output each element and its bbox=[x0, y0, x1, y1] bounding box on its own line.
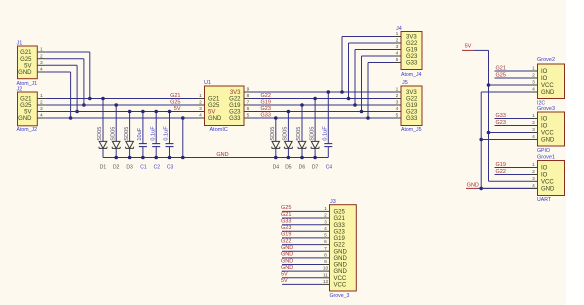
svg-text:C2: C2 bbox=[154, 165, 161, 171]
svg-text:G33: G33 bbox=[281, 219, 291, 225]
svg-text:J1: J1 bbox=[17, 40, 23, 46]
svg-text:G33: G33 bbox=[406, 116, 418, 122]
svg-text:G22: G22 bbox=[334, 243, 346, 249]
junction bbox=[181, 156, 185, 160]
junction bbox=[479, 187, 483, 191]
svg-text:2: 2 bbox=[40, 53, 43, 59]
connector Grove1 (UART) bbox=[530, 154, 565, 203]
svg-text:GPIO: GPIO bbox=[537, 148, 550, 154]
svg-text:G33: G33 bbox=[229, 116, 241, 122]
wire net G22 bus right bbox=[252, 98, 393, 100]
diode D1 (SD05) bbox=[97, 99, 107, 158]
junction bbox=[101, 97, 105, 101]
wire J3 pin 7 net GND bbox=[282, 250, 322, 252]
svg-text:G19: G19 bbox=[334, 236, 346, 242]
svg-text:G25: G25 bbox=[281, 205, 291, 211]
svg-text:D7: D7 bbox=[312, 165, 319, 171]
svg-text:1: 1 bbox=[396, 31, 399, 37]
svg-text:G19: G19 bbox=[406, 103, 418, 109]
svg-text:Atom_J5: Atom_J5 bbox=[401, 127, 422, 133]
wire 5V rail bbox=[474, 50, 489, 181]
junction bbox=[69, 116, 73, 120]
wire J3 pin 11 net 5V bbox=[282, 277, 322, 279]
svg-text:SD05: SD05 bbox=[124, 127, 130, 141]
wire J3 pin 1 net G25 bbox=[282, 210, 322, 212]
svg-text:4: 4 bbox=[532, 134, 535, 140]
junction bbox=[114, 103, 118, 107]
svg-text:1: 1 bbox=[324, 206, 327, 212]
svg-text:3: 3 bbox=[199, 106, 202, 112]
connector J4 (Atom_J4) bbox=[393, 26, 422, 78]
svg-text:SD05: SD05 bbox=[110, 127, 116, 141]
wire J1 G25 bbox=[45, 59, 84, 105]
svg-text:GND: GND bbox=[18, 116, 32, 122]
svg-text:U1: U1 bbox=[204, 80, 211, 86]
connector Grove2 (I2C) bbox=[530, 57, 565, 106]
svg-text:J4: J4 bbox=[396, 26, 402, 32]
junction bbox=[128, 156, 132, 160]
junction bbox=[287, 156, 291, 160]
wire G22 to J4 bbox=[349, 43, 394, 99]
svg-text:D2: D2 bbox=[113, 165, 120, 171]
svg-text:2: 2 bbox=[396, 38, 399, 44]
svg-text:G25: G25 bbox=[170, 100, 180, 106]
svg-text:G25: G25 bbox=[20, 57, 32, 63]
svg-text:10uF: 10uF bbox=[137, 127, 143, 140]
svg-text:GND: GND bbox=[281, 265, 293, 271]
svg-text:G21: G21 bbox=[496, 65, 506, 71]
junction bbox=[88, 97, 92, 101]
svg-text:0.1uF: 0.1uF bbox=[323, 126, 329, 141]
svg-text:G23: G23 bbox=[281, 225, 291, 231]
svg-text:4: 4 bbox=[40, 67, 43, 73]
svg-text:Atom_J4: Atom_J4 bbox=[401, 72, 422, 78]
svg-text:G33: G33 bbox=[496, 113, 506, 119]
capacitor C1 (10uF) bbox=[137, 112, 147, 158]
svg-text:5: 5 bbox=[247, 113, 250, 119]
svg-text:IO: IO bbox=[541, 173, 548, 179]
svg-text:SD05: SD05 bbox=[296, 127, 302, 141]
svg-text:3: 3 bbox=[40, 60, 43, 66]
svg-text:J2: J2 bbox=[17, 86, 23, 92]
wire G25 io2 bbox=[495, 77, 530, 79]
svg-text:UART: UART bbox=[537, 197, 552, 203]
wire J3 pin 8 net GND bbox=[282, 257, 322, 259]
svg-text:5V: 5V bbox=[174, 106, 181, 112]
svg-text:1: 1 bbox=[532, 66, 535, 72]
svg-text:G19: G19 bbox=[229, 103, 241, 109]
wire net G25 bus bbox=[45, 104, 196, 106]
svg-text:J5: J5 bbox=[402, 80, 408, 86]
svg-text:3: 3 bbox=[532, 176, 535, 182]
junction bbox=[75, 110, 79, 114]
svg-text:5V: 5V bbox=[281, 272, 288, 278]
wire VCC bbox=[489, 84, 530, 86]
svg-text:GND: GND bbox=[334, 269, 348, 275]
svg-text:Grove_3: Grove_3 bbox=[330, 293, 350, 299]
capacitor C3 (0.1uF) bbox=[164, 112, 174, 158]
svg-text:SD05: SD05 bbox=[283, 127, 289, 141]
svg-text:GND: GND bbox=[281, 252, 293, 258]
svg-text:G21: G21 bbox=[170, 93, 180, 99]
svg-text:4: 4 bbox=[532, 87, 535, 93]
svg-text:1: 1 bbox=[199, 93, 202, 99]
svg-text:4: 4 bbox=[396, 51, 399, 57]
op IC U1 AtomIC bbox=[197, 80, 253, 133]
diode D3 (SD05) bbox=[124, 112, 134, 158]
svg-text:3: 3 bbox=[396, 100, 399, 106]
wire VCC bbox=[489, 180, 530, 182]
junction bbox=[168, 110, 172, 114]
svg-text:4: 4 bbox=[199, 113, 202, 119]
svg-text:G21: G21 bbox=[20, 50, 32, 56]
connector J5 (Atom_J5) bbox=[393, 80, 422, 133]
svg-text:SD05: SD05 bbox=[309, 127, 315, 141]
svg-text:0.1uF: 0.1uF bbox=[150, 126, 156, 141]
svg-text:G23: G23 bbox=[406, 110, 418, 116]
svg-text:5V: 5V bbox=[24, 110, 31, 116]
svg-text:G23: G23 bbox=[496, 120, 506, 126]
svg-text:IO: IO bbox=[541, 69, 548, 75]
svg-text:6: 6 bbox=[247, 106, 250, 112]
diode D6 (SD05) bbox=[296, 105, 306, 158]
svg-text:GND: GND bbox=[281, 258, 293, 264]
sheet margin bbox=[566, 0, 584, 305]
svg-text:2: 2 bbox=[396, 93, 399, 99]
svg-text:G22: G22 bbox=[496, 169, 506, 175]
svg-text:2: 2 bbox=[40, 100, 43, 106]
junction bbox=[181, 116, 185, 120]
svg-text:3V3: 3V3 bbox=[230, 90, 241, 96]
svg-text:4: 4 bbox=[324, 226, 327, 232]
wire GND drop bbox=[182, 118, 184, 158]
connector Grove3 (GPIO) bbox=[530, 106, 565, 154]
svg-text:GND: GND bbox=[281, 245, 293, 251]
svg-text:G21: G21 bbox=[334, 216, 346, 222]
wire GND rail right bbox=[478, 92, 538, 188]
svg-text:GND: GND bbox=[541, 187, 555, 193]
svg-text:IO: IO bbox=[541, 124, 548, 130]
wire GND bbox=[481, 91, 529, 93]
svg-text:G21: G21 bbox=[20, 97, 32, 103]
svg-text:GND: GND bbox=[334, 256, 348, 262]
svg-text:D3: D3 bbox=[126, 165, 133, 171]
svg-text:7: 7 bbox=[247, 100, 250, 106]
svg-text:3V3: 3V3 bbox=[406, 90, 417, 96]
wire J3 pin 3 net G33 bbox=[282, 224, 322, 226]
svg-text:D6: D6 bbox=[299, 165, 306, 171]
svg-text:6: 6 bbox=[324, 239, 327, 245]
wire G33 io1 bbox=[495, 118, 530, 120]
svg-text:5V: 5V bbox=[24, 63, 31, 69]
svg-text:G19: G19 bbox=[281, 232, 291, 238]
junction bbox=[487, 83, 491, 87]
svg-text:AtomIC: AtomIC bbox=[210, 127, 228, 133]
wire net G19 bus right bbox=[252, 104, 393, 106]
wire 3V3 to J4 bbox=[342, 37, 393, 93]
svg-text:5V: 5V bbox=[465, 44, 472, 50]
svg-text:VCC: VCC bbox=[541, 83, 554, 89]
svg-text:3: 3 bbox=[324, 219, 327, 225]
connector J3 (Grove_3) bbox=[322, 199, 357, 299]
wire net 5V bus bbox=[45, 111, 196, 113]
junction bbox=[274, 156, 278, 160]
svg-text:4: 4 bbox=[532, 183, 535, 189]
wire J1 GND bbox=[45, 72, 70, 118]
svg-text:8: 8 bbox=[324, 253, 327, 259]
wire G22 io2 bbox=[495, 174, 530, 176]
svg-text:3: 3 bbox=[532, 127, 535, 133]
junction bbox=[141, 156, 145, 160]
junction bbox=[479, 138, 483, 142]
svg-text:D5: D5 bbox=[285, 165, 292, 171]
svg-text:G23: G23 bbox=[406, 54, 418, 60]
svg-text:G33: G33 bbox=[406, 61, 418, 67]
svg-text:VCC: VCC bbox=[334, 276, 347, 282]
diode D5 (SD05) bbox=[283, 112, 293, 158]
svg-text:GND: GND bbox=[541, 90, 555, 96]
svg-text:9: 9 bbox=[324, 259, 327, 265]
svg-text:5V: 5V bbox=[281, 278, 288, 284]
wire J3 pin 6 net G22 bbox=[282, 244, 322, 246]
svg-text:G22: G22 bbox=[406, 41, 418, 47]
svg-text:G21: G21 bbox=[208, 97, 220, 103]
wire G23 to J4 bbox=[362, 56, 394, 112]
wire J1 G21 bbox=[45, 52, 90, 99]
svg-text:G25: G25 bbox=[20, 103, 32, 109]
svg-text:G22: G22 bbox=[229, 97, 241, 103]
svg-text:G23: G23 bbox=[229, 110, 241, 116]
svg-text:Atom_J2: Atom_J2 bbox=[17, 127, 38, 133]
svg-text:2: 2 bbox=[324, 213, 327, 219]
svg-text:8: 8 bbox=[247, 93, 250, 99]
svg-text:C4: C4 bbox=[326, 165, 333, 171]
wire J3 pin 2 net G21 bbox=[282, 217, 322, 219]
junction bbox=[82, 103, 86, 107]
svg-text:5: 5 bbox=[324, 233, 327, 239]
svg-text:3V3: 3V3 bbox=[406, 35, 417, 41]
wire J3 pin 4 net G23 bbox=[282, 230, 322, 232]
svg-text:GND: GND bbox=[541, 138, 555, 144]
svg-text:G33: G33 bbox=[334, 223, 346, 229]
junction bbox=[141, 110, 145, 114]
svg-text:1: 1 bbox=[532, 113, 535, 119]
wire net GND rail bbox=[103, 157, 328, 159]
wire J3 pin 10 net GND bbox=[282, 270, 322, 272]
svg-text:GND: GND bbox=[216, 152, 228, 158]
svg-text:VCC: VCC bbox=[334, 283, 347, 289]
svg-text:D1: D1 bbox=[100, 165, 107, 171]
wire J3 pin 9 net GND bbox=[282, 264, 322, 266]
svg-text:4: 4 bbox=[40, 113, 43, 119]
junction bbox=[154, 110, 158, 114]
svg-text:G25: G25 bbox=[496, 72, 506, 78]
wire G21 io1 bbox=[495, 70, 530, 72]
capacitor C4 (0.1uF) bbox=[323, 92, 333, 158]
svg-text:Grove1: Grove1 bbox=[537, 154, 555, 160]
svg-text:GND: GND bbox=[208, 116, 222, 122]
svg-text:GND: GND bbox=[467, 183, 479, 189]
junction bbox=[128, 110, 132, 114]
svg-text:G19: G19 bbox=[406, 48, 418, 54]
svg-text:7: 7 bbox=[324, 246, 327, 252]
wire net G21 bus bbox=[45, 98, 196, 100]
wire G23 io2 bbox=[495, 125, 530, 127]
svg-text:C3: C3 bbox=[167, 165, 174, 171]
junction bbox=[487, 131, 491, 135]
wire G33 to J4 bbox=[368, 63, 393, 119]
junction bbox=[300, 156, 304, 160]
svg-text:1: 1 bbox=[40, 93, 43, 99]
svg-text:GND: GND bbox=[334, 249, 348, 255]
svg-text:G22: G22 bbox=[406, 97, 418, 103]
svg-text:2: 2 bbox=[532, 120, 535, 126]
wire G19 io1 bbox=[495, 167, 530, 169]
svg-text:G25: G25 bbox=[334, 210, 346, 216]
svg-text:12: 12 bbox=[323, 279, 329, 285]
svg-text:5: 5 bbox=[396, 57, 399, 63]
svg-text:2: 2 bbox=[199, 100, 202, 106]
junction bbox=[313, 156, 317, 160]
junction bbox=[114, 156, 118, 160]
svg-text:SD05: SD05 bbox=[270, 127, 276, 141]
svg-text:G22: G22 bbox=[261, 93, 271, 99]
junction bbox=[168, 156, 172, 160]
wire net G23 bus right bbox=[252, 111, 393, 113]
connector J1 (Atom_J1) bbox=[17, 40, 46, 87]
svg-text:3: 3 bbox=[396, 44, 399, 50]
junction bbox=[154, 156, 158, 160]
connector J2 (Atom_J2) bbox=[17, 86, 46, 133]
svg-text:G23: G23 bbox=[334, 229, 346, 235]
svg-text:G25: G25 bbox=[208, 103, 220, 109]
svg-text:GND: GND bbox=[334, 263, 348, 269]
power flag 5V bbox=[462, 44, 474, 51]
wire net GND bus bbox=[45, 117, 196, 119]
svg-text:1: 1 bbox=[396, 87, 399, 93]
svg-text:Grove2: Grove2 bbox=[537, 57, 555, 63]
wire GND bbox=[481, 139, 529, 141]
svg-text:IO: IO bbox=[541, 166, 548, 172]
wire G19 to J4 bbox=[355, 50, 393, 106]
svg-text:2: 2 bbox=[532, 169, 535, 175]
junction bbox=[274, 116, 278, 120]
wire VCC bbox=[489, 132, 530, 134]
svg-text:1: 1 bbox=[40, 47, 43, 53]
wire GND bbox=[481, 187, 529, 189]
svg-text:G33: G33 bbox=[261, 113, 271, 119]
svg-text:3: 3 bbox=[532, 80, 535, 86]
junction bbox=[347, 97, 351, 101]
svg-text:3: 3 bbox=[40, 106, 43, 112]
svg-text:G19: G19 bbox=[261, 100, 271, 106]
svg-text:2: 2 bbox=[532, 73, 535, 79]
junction bbox=[300, 103, 304, 107]
svg-text:G19: G19 bbox=[496, 162, 506, 168]
junction bbox=[366, 116, 370, 120]
svg-text:IO: IO bbox=[541, 117, 548, 123]
svg-text:D4: D4 bbox=[273, 165, 280, 171]
ground flag GND bbox=[466, 183, 479, 189]
capacitor C2 (0.1uF) bbox=[150, 112, 160, 158]
wire net G33 bus right bbox=[252, 117, 393, 119]
wire J3 pin 12 net 5V bbox=[282, 283, 322, 285]
junction bbox=[287, 110, 291, 114]
svg-text:5V: 5V bbox=[208, 110, 215, 116]
wire net 3V3 bus right bbox=[252, 91, 393, 93]
svg-text:0.1uF: 0.1uF bbox=[164, 126, 170, 141]
diode D7 (SD05) bbox=[309, 99, 319, 158]
svg-text:Grove3: Grove3 bbox=[537, 106, 555, 112]
svg-text:10: 10 bbox=[323, 266, 329, 272]
svg-text:5: 5 bbox=[396, 113, 399, 119]
svg-text:G22: G22 bbox=[281, 238, 291, 244]
diode D2 (SD05) bbox=[110, 105, 120, 158]
junction bbox=[353, 103, 357, 107]
svg-text:G21: G21 bbox=[281, 212, 291, 218]
svg-text:GND: GND bbox=[18, 70, 32, 76]
junction bbox=[327, 90, 331, 94]
svg-text:J3: J3 bbox=[330, 199, 336, 205]
junction bbox=[313, 97, 317, 101]
svg-text:4: 4 bbox=[396, 106, 399, 112]
svg-text:G23: G23 bbox=[261, 106, 271, 112]
svg-text:9: 9 bbox=[247, 87, 250, 93]
wire J3 pin 5 net G19 bbox=[282, 237, 322, 239]
junction bbox=[340, 90, 344, 94]
diode D4 (SD05) bbox=[270, 118, 280, 158]
junction bbox=[360, 110, 364, 114]
svg-text:VCC: VCC bbox=[541, 179, 554, 185]
svg-text:11: 11 bbox=[323, 272, 328, 278]
svg-text:1: 1 bbox=[532, 162, 535, 168]
svg-text:SD05: SD05 bbox=[97, 127, 103, 141]
svg-text:C1: C1 bbox=[140, 165, 147, 171]
wire J1 5V bbox=[45, 65, 77, 111]
svg-text:IO: IO bbox=[541, 76, 548, 82]
svg-text:VCC: VCC bbox=[541, 131, 554, 137]
